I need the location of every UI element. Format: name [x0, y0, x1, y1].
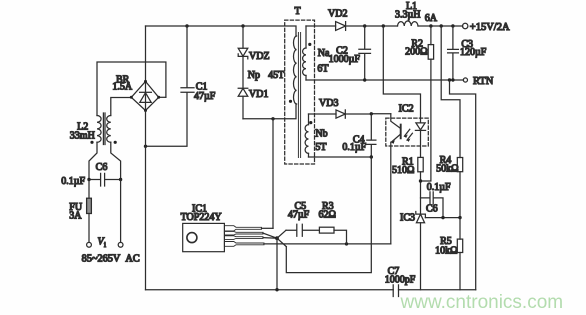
svg-text:RTN: RTN	[473, 76, 494, 87]
svg-text:C6: C6	[96, 162, 108, 173]
wire: VD3 to collector node	[345, 113, 391, 115]
node: R4 feed top	[440, 24, 443, 27]
wire: bottom ground rail left	[146, 289, 394, 291]
svg-text:62Ω: 62Ω	[318, 209, 335, 220]
svg-text:VDZ: VDZ	[249, 51, 270, 62]
inductor L1	[398, 21, 419, 26]
svg-text:VD3: VD3	[319, 98, 338, 109]
svg-text:1.5A: 1.5A	[112, 82, 133, 93]
node: R3 junction	[345, 242, 348, 245]
svg-text:3A: 3A	[69, 210, 82, 221]
svg-text:120µF: 120µF	[460, 47, 487, 58]
node: LED branch top	[382, 24, 385, 27]
diode VD1	[238, 88, 248, 119]
wire: RTN to secondary ground stair	[450, 80, 476, 290]
node: bias top	[370, 112, 373, 115]
wire: top rail primary	[146, 26, 297, 36]
capacitor C6 (feedback)	[421, 192, 444, 218]
wire: L2 left lead down	[89, 142, 97, 179]
diode VD2	[336, 22, 346, 31]
transformer T dashed box	[285, 20, 315, 164]
node: clamp top junction	[241, 24, 244, 27]
wire: LED supply stair	[383, 26, 420, 123]
resistor R5	[457, 218, 462, 290]
diode VD3	[336, 110, 345, 118]
capacitor C6 (input filter)	[87, 173, 122, 186]
svg-text:200Ω: 200Ω	[405, 47, 427, 58]
IC3 adjustable zener (TL431)	[416, 212, 426, 290]
wire: source node diagonal to bias return	[277, 238, 286, 246]
wire: L2 right winding to bridge	[111, 98, 132, 116]
terminal: +15V/2A output	[463, 23, 468, 28]
optocoupler IC2 dashed box	[386, 118, 429, 146]
IC1 pin 1 (drain)	[224, 226, 261, 231]
svg-text:0.1µF: 0.1µF	[61, 176, 85, 187]
wire: clamp to primary bottom	[243, 104, 296, 119]
optocoupler light arrows	[404, 129, 412, 142]
wire: bridge top vertical	[145, 26, 147, 81]
capacitor C3	[448, 26, 459, 80]
transformer core	[298, 33, 300, 158]
svg-text:10kΩ: 10kΩ	[435, 245, 457, 256]
transformer primary winding Np	[289, 36, 297, 104]
capacitor C5	[286, 224, 319, 236]
resistor R4	[457, 158, 462, 218]
wire: bridge upper loop	[97, 62, 166, 116]
node: C2 bottom	[363, 78, 366, 81]
bridge rectifier BR	[130, 80, 166, 112]
resistor R3	[319, 227, 346, 244]
wire: pin2 to node	[263, 233, 277, 238]
wire: Nb top to VD3	[309, 113, 337, 115]
IC1 TOP224Y body	[183, 223, 225, 251]
svg-text:3.3µH: 3.3µH	[395, 9, 420, 20]
wire: pin1 to drain riser	[262, 227, 274, 229]
node: IC1 source ground	[275, 288, 278, 291]
svg-text:IC3: IC3	[400, 212, 415, 223]
wire: bias return path	[286, 157, 371, 273]
capacitor C4	[367, 114, 376, 157]
capacitor C7	[393, 285, 398, 297]
fuse FU	[87, 180, 92, 243]
capacitor C2	[359, 26, 371, 80]
wire: pin3 to node	[263, 237, 277, 240]
node: C6 ref junction	[441, 216, 444, 219]
wire: source node down to ground	[276, 238, 278, 290]
svg-text:VD2: VD2	[328, 9, 347, 20]
wire: source node to C5	[277, 230, 286, 238]
svg-text:1000µF: 1000µF	[329, 54, 361, 65]
node: R1 bottom / R2 junction	[419, 179, 422, 182]
wire: AC input right	[120, 180, 122, 243]
terminal: AC input right	[118, 242, 123, 247]
capacitor C1	[146, 26, 195, 146]
inductor L2 (common-mode choke)	[90, 113, 116, 145]
resistor R1	[418, 157, 423, 214]
zener VDZ	[238, 26, 248, 88]
wire: VD2 to L1	[346, 25, 398, 27]
wire: +15V to R4 feed stair	[441, 26, 460, 158]
svg-text:0.1µF: 0.1µF	[427, 182, 451, 193]
svg-text:i: i	[104, 241, 106, 249]
wire: Nb bottom to C4 bottom	[309, 156, 372, 158]
terminal: RTN output	[463, 78, 467, 82]
svg-text:510Ω: 510Ω	[392, 165, 414, 176]
node: IC1 source node	[275, 236, 279, 240]
svg-text:www.cntronics.com: www.cntronics.com	[400, 292, 564, 313]
wire: L2 right lead down	[111, 142, 121, 179]
node: R4/R5 junction	[458, 216, 461, 219]
wire: drain down to IC1 pin1	[272, 119, 274, 229]
svg-text:C6: C6	[426, 203, 438, 214]
node: C1 top junction	[185, 24, 188, 27]
svg-text:TOP224Y: TOP224Y	[181, 212, 222, 223]
wire: L1 to +15V terminal	[418, 25, 463, 27]
svg-text:+15V/2A: +15V/2A	[470, 22, 510, 33]
node: C3 bottom	[451, 78, 454, 81]
svg-text:0.1µF: 0.1µF	[342, 142, 366, 153]
svg-text:VD1: VD1	[249, 89, 268, 100]
IC1 pin 3	[224, 236, 263, 240]
svg-text:Nb: Nb	[315, 129, 327, 140]
node: R2 top	[429, 24, 432, 27]
svg-text:6A: 6A	[425, 13, 438, 24]
svg-text:85~265V AC: 85~265V AC	[82, 254, 140, 265]
wire: RTN rail	[306, 79, 464, 81]
node: drain junction	[271, 117, 274, 120]
terminal: AC input left	[87, 242, 92, 247]
svg-text:47µF: 47µF	[288, 209, 310, 220]
wire: control line	[264, 243, 391, 245]
wire: bridge bottom vertical	[145, 111, 147, 290]
IC1 pin 4 (control)	[224, 242, 264, 247]
resistor R2	[421, 26, 434, 181]
node: RTN stair branch	[448, 78, 451, 81]
node: C3 top	[451, 24, 454, 27]
node: bias bottom	[370, 155, 373, 158]
wire: Na top to VD2	[306, 25, 336, 27]
svg-text:33mH: 33mH	[70, 130, 95, 141]
svg-text:50kΩ: 50kΩ	[436, 164, 458, 175]
wire: bottom ground rail right	[399, 289, 476, 291]
node: C1 bottom junction	[144, 145, 147, 148]
optocoupler LED	[415, 123, 425, 157]
node: C2 top	[363, 24, 366, 27]
svg-text:47µF: 47µF	[194, 91, 216, 102]
svg-text:IC2: IC2	[399, 104, 414, 115]
svg-text:1000pF: 1000pF	[385, 274, 416, 285]
svg-text:5T: 5T	[315, 142, 326, 153]
wire: reference node	[425, 217, 460, 219]
svg-text:Np: Np	[248, 70, 260, 81]
optocoupler phototransistor	[391, 114, 401, 244]
svg-text:45T: 45T	[268, 70, 284, 81]
svg-text:6T: 6T	[317, 64, 328, 75]
svg-text:T: T	[294, 6, 300, 17]
IC1 pin 2	[224, 231, 263, 235]
transformer secondary Nb	[305, 114, 312, 157]
transformer secondary Na	[303, 26, 312, 80]
